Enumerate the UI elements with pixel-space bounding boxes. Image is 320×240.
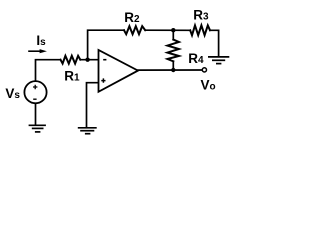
voltage source Vs bbox=[24, 81, 46, 103]
wire op-amp non-inverting input to ground bbox=[87, 83, 99, 127]
resistor R1 bbox=[61, 56, 81, 64]
wire R3 to top-right ground bbox=[210, 30, 219, 56]
svg-text:R3: R3 bbox=[193, 8, 209, 23]
resistor R4 bbox=[172, 30, 174, 39]
svg-text:Vs: Vs bbox=[5, 86, 20, 101]
node B junction dot (R2/R3/R4 top) bbox=[171, 28, 175, 32]
ground (top right, after R3) bbox=[208, 57, 229, 64]
ground (below Vs) bbox=[29, 125, 46, 132]
svg-text:R1: R1 bbox=[64, 68, 80, 83]
wire node A up to feedback run bbox=[88, 30, 124, 60]
node A junction dot (inverting input) bbox=[85, 58, 89, 62]
terminal Vo open circle bbox=[202, 68, 206, 72]
svg-text:Vo: Vo bbox=[201, 78, 216, 93]
wire op-amp output to Vo terminal bbox=[138, 69, 202, 71]
resistor R2 bbox=[124, 26, 145, 34]
wire R2 to R3 bbox=[145, 29, 190, 31]
svg-text:R2: R2 bbox=[124, 10, 140, 25]
resistor R3 bbox=[190, 25, 210, 35]
wire Vs bottom to ground bbox=[35, 104, 37, 125]
wire R1 to op-amp inverting input bbox=[80, 59, 98, 61]
op-amp U1 bbox=[99, 50, 139, 92]
current arrow Is bbox=[28, 49, 47, 53]
svg-text:Is: Is bbox=[36, 33, 46, 48]
svg-text:R4: R4 bbox=[188, 51, 204, 66]
wire Vs top to R1 bbox=[36, 60, 61, 81]
node C junction dot (output/R4 bottom) bbox=[171, 68, 175, 72]
ground (below op-amp + input) bbox=[78, 128, 97, 134]
